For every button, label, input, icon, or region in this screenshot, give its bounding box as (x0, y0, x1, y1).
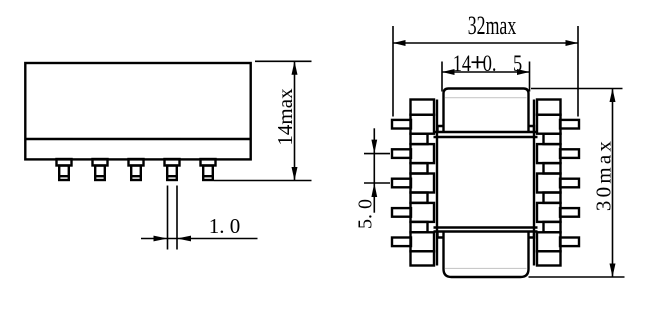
svg-text:5: 5 (513, 50, 522, 77)
svg-text:32max: 32max (468, 11, 516, 40)
left rail connector 2 (411, 163, 428, 173)
right rail bottom cap (537, 251, 561, 265)
dimension 5.0 (364, 128, 390, 212)
right rail connector 1 (544, 134, 561, 144)
left pin tip 2 (392, 149, 411, 158)
pin 4 tick (167, 175, 177, 177)
right rail connector 3 (544, 193, 561, 203)
pin 1 tick (59, 175, 69, 177)
right pin tip 5 (560, 238, 579, 247)
left rail top cap (411, 100, 435, 115)
core leg notch top-left (438, 126, 445, 132)
left rail pin block 4 (411, 203, 435, 222)
pin 1 shank (59, 166, 69, 181)
top flange line 2 (434, 136, 538, 138)
svg-text:14max: 14max (273, 88, 297, 146)
right rail pin block 5 (537, 232, 561, 251)
pin 2 shank (95, 166, 105, 181)
right pin tip 4 (560, 208, 579, 217)
14max top extension line (255, 60, 312, 62)
14+0.5 left extension line (441, 62, 443, 92)
pin 3 collar (129, 159, 144, 166)
30max bottom extension line (529, 276, 625, 278)
14max bottom arrow (292, 167, 298, 181)
pin 3 shank (131, 166, 141, 181)
14max top arrow (292, 61, 298, 75)
right rail pin block 4 (537, 203, 561, 222)
5.0 lower extension line (364, 182, 390, 184)
5.0 dimension line (373, 128, 375, 212)
dimension 14max (214, 61, 312, 180)
bottom flange line 2 (434, 230, 538, 232)
5.0 upper extension line (364, 153, 390, 155)
pin 3 tick (131, 175, 141, 177)
32max left extension line (392, 26, 394, 117)
pin 5 collar (201, 159, 216, 166)
pin 2 collar (93, 159, 108, 166)
right pin tip 1 (560, 120, 579, 129)
dimension 30max (529, 89, 625, 278)
left rail connector 3 (411, 193, 428, 203)
svg-text:5. 0: 5. 0 (355, 199, 377, 229)
pin 1 collar (57, 159, 72, 166)
faint highlight line bottom core (445, 267, 527, 269)
32max right extension line (577, 26, 579, 117)
left rail bottom cap (411, 251, 435, 265)
faint highlight line top core (445, 97, 527, 99)
bottom flange line 1 (434, 226, 538, 228)
winding window left edge (436, 100, 438, 266)
top flange line 1 (434, 131, 538, 133)
left pin tip 5 (392, 238, 411, 247)
core leg notch top-right (528, 126, 535, 132)
1.0 right arrow (177, 236, 191, 242)
left pin tip 4 (392, 208, 411, 217)
1.0 left extension line (167, 186, 169, 250)
winding window right edge (533, 100, 535, 266)
14+0.5 left arrow (442, 69, 455, 75)
pin 5 tick (203, 175, 213, 177)
32max left arrow (393, 40, 406, 46)
5.0 upper arrow (371, 140, 377, 154)
right rail pin block 1 (537, 115, 561, 134)
32max right arrow (566, 40, 579, 46)
dimension 14+0.5 (442, 62, 530, 92)
left rail connector 4 (411, 222, 428, 232)
top core half (444, 89, 529, 133)
30max top arrow (610, 89, 616, 103)
14+0.5 right extension line (529, 62, 531, 92)
right rail pin block 2 (537, 144, 561, 163)
32max dimension line (393, 42, 578, 44)
right rail top cap (537, 100, 561, 115)
right rail connector 4 (544, 222, 561, 232)
30max dimension line (612, 89, 614, 278)
14max bottom extension line (214, 180, 312, 182)
30max bottom arrow (610, 264, 616, 278)
14+0.5 label (453, 50, 522, 77)
core leg notch bottom-left (438, 232, 445, 238)
pin 2 tick (95, 175, 105, 177)
pin 4 collar (165, 159, 180, 166)
1.0 left arrow (154, 236, 168, 242)
plus sign of 14+0.5 (472, 61, 484, 63)
right rail pin block 3 (537, 174, 561, 193)
1.0 right extension line (176, 186, 178, 250)
right pin tip 2 (560, 149, 579, 158)
dimension 32max (393, 26, 578, 117)
dimension 1.0 (141, 186, 258, 250)
30max top extension line (531, 88, 623, 90)
right pin tip 3 (560, 179, 579, 188)
left pin tip 1 (392, 120, 411, 129)
svg-text:0.: 0. (483, 50, 497, 77)
14+0.5 dimension line (442, 71, 530, 73)
left rail pin block 5 (411, 232, 435, 251)
pin 5 shank (203, 166, 213, 181)
body base line (25, 138, 250, 140)
14+0.5 right arrow (517, 69, 530, 75)
1.0 dimension line (141, 238, 258, 240)
5.0 lower arrow (371, 183, 377, 197)
svg-text:1. 0: 1. 0 (209, 214, 241, 238)
right rail connector 2 (544, 163, 561, 173)
left rail pin block 1 (411, 115, 435, 134)
bottom core half (444, 232, 529, 278)
left rail pin block 2 (411, 144, 435, 163)
left rail pin block 3 (411, 174, 435, 193)
svg-text:14: 14 (453, 50, 472, 77)
left rail connector 1 (411, 134, 428, 144)
14max dimension line (294, 61, 296, 180)
pin 4 shank (167, 166, 177, 181)
left pin tip 3 (392, 179, 411, 188)
body outline (25, 63, 250, 159)
core leg notch bottom-right (528, 232, 535, 238)
svg-text:30max: 30max (591, 138, 615, 211)
